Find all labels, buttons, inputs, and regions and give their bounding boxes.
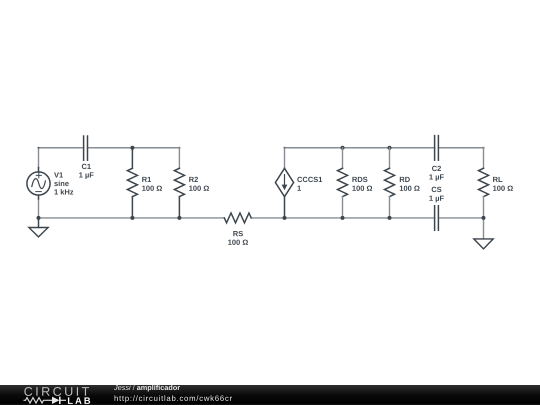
wire bottom rail CCCS1 to CS (285, 217, 435, 219)
wire bottom rail CS to RL (438, 217, 483, 219)
label C1 value (79, 172, 93, 179)
label RD (400, 177, 410, 182)
label CCCS1 (297, 177, 322, 182)
label CS value (429, 196, 443, 203)
label RL (493, 177, 502, 182)
node dot V1 bottom (37, 216, 41, 220)
node dot R1 top (130, 146, 134, 150)
label C1 (82, 164, 91, 169)
label RDS (352, 177, 367, 182)
footer url line (115, 395, 232, 402)
wire top rail C2 to RL (438, 147, 483, 149)
footer title line (114, 385, 180, 392)
label RDS value (352, 186, 372, 191)
wire top rail CCCS1 to C2 (285, 147, 435, 149)
logo LAB text (68, 397, 90, 403)
label RS value (228, 240, 248, 245)
capacitor C2 (435, 136, 439, 161)
voltage source V1 (27, 168, 50, 199)
label R2 value (189, 186, 209, 191)
ground right (474, 239, 493, 249)
logo diode (47, 397, 67, 404)
label CCCS1 value (297, 186, 300, 191)
node dot CCCS1 bottom (283, 216, 287, 220)
resistor R1 (127, 148, 137, 218)
wire V1 bottom stub (38, 199, 40, 218)
resistor RS (224, 213, 251, 223)
node dot RD bottom (388, 216, 392, 220)
ground left (29, 218, 48, 237)
label C2 value (429, 174, 443, 181)
logo resistor zigzag (24, 398, 47, 403)
resistor RD (385, 148, 395, 218)
wire corner CCCS1 top (284, 147, 286, 149)
logo CIRCUIT text (24, 387, 89, 396)
label RD value (400, 186, 420, 191)
wire corner RL top (483, 147, 485, 149)
label R2 (189, 177, 198, 182)
current source CCCS1 (275, 148, 293, 218)
label RL value (493, 186, 513, 191)
wire top rail C1 to R2 (88, 147, 180, 149)
wire corner R2 top (179, 147, 181, 149)
label R1 value (142, 186, 162, 191)
label RS (233, 231, 243, 236)
node dot RD top (388, 146, 392, 150)
wire right ground stub (483, 218, 485, 239)
resistor RL (479, 148, 489, 218)
wire bottom rail V1 to RS (39, 217, 225, 219)
node dot RDS bottom (341, 216, 345, 220)
wire RS to CCCS1 (251, 217, 284, 219)
wire V1 top to C1 (39, 148, 84, 168)
label CS (432, 187, 442, 192)
label C2 (432, 166, 441, 171)
wire corner V1 top (38, 147, 40, 149)
resistor RDS (338, 148, 348, 218)
label V1 type (54, 181, 68, 187)
node dot RDS top (341, 146, 345, 150)
label R1 (142, 177, 151, 182)
capacitor C1 (84, 136, 88, 160)
node dot R1 bottom (130, 216, 134, 220)
label V1 (54, 172, 63, 177)
footer bar (0, 385, 540, 405)
node dot R2 bottom (177, 216, 181, 220)
node dot RL bottom (482, 216, 486, 220)
capacitor CS (435, 206, 439, 231)
label V1 freq (54, 189, 73, 194)
resistor R2 (174, 148, 184, 218)
